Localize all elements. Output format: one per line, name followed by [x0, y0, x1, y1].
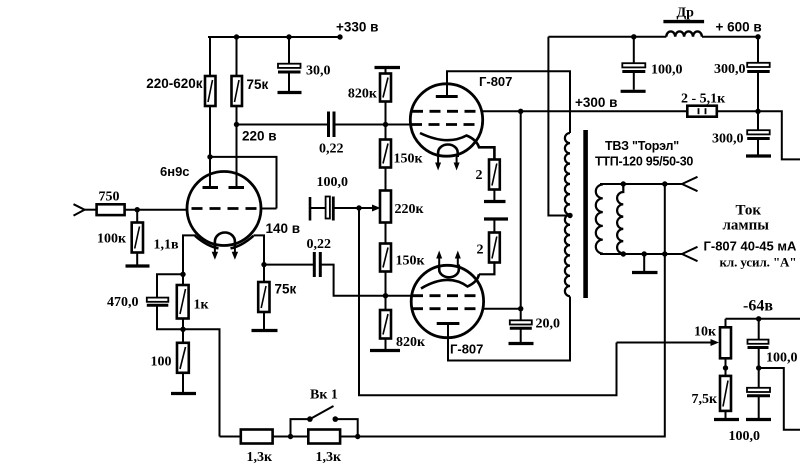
tube Г-807 lower screen grid dashed — [412, 307, 483, 310]
capacitor C 100,0 filter — [622, 63, 645, 89]
input terminal arrow — [74, 204, 85, 215]
wire 2 lower to cathode — [479, 263, 494, 275]
node input-100k junction — [135, 207, 140, 212]
resistor R 220-620к — [205, 76, 216, 106]
ground bar 30,0 — [278, 91, 302, 94]
switch Вк 1 blade — [310, 406, 334, 419]
wire screen bus — [481, 111, 521, 308]
svg-text:2: 2 — [477, 243, 484, 258]
wire switch left riser — [291, 419, 310, 436]
resistor R 150к upper — [380, 140, 391, 168]
node rail-75k junction — [234, 34, 239, 39]
wire 0,22 lower to grid2 node — [320, 265, 385, 296]
wire 300,0 lower bottom lead — [757, 140, 759, 155]
node rail-30,0 junction — [286, 34, 291, 39]
wire 1,3k left to right — [273, 436, 309, 438]
ground bar 300,0 — [746, 154, 771, 157]
wire -64в rail — [726, 318, 800, 320]
svg-text:220 в: 220 в — [242, 129, 277, 144]
svg-text:300,0: 300,0 — [714, 62, 746, 77]
svg-text:100,0: 100,0 — [729, 429, 761, 444]
svg-text:750: 750 — [99, 190, 120, 205]
resistor R 100 — [177, 343, 189, 373]
wire 150k to 820k lower — [385, 272, 387, 311]
ground bar 20,0 — [509, 342, 534, 345]
ground bar secondary — [632, 271, 658, 274]
svg-text:1к: 1к — [194, 298, 210, 313]
tube Г-807 upper control grid dashed — [411, 123, 482, 126]
tube 6н9с cathode right wing — [231, 236, 254, 249]
wire heater bus to 1,3k — [220, 436, 241, 438]
tube 6н9с anode 1 — [203, 186, 219, 189]
wire bar to 820k — [385, 68, 387, 74]
svg-text:6н9с: 6н9с — [160, 164, 190, 179]
svg-text:7,5к: 7,5к — [692, 392, 719, 407]
node output bottom junction — [662, 251, 667, 256]
node 1k-100 junction — [180, 327, 185, 332]
svg-text:140 в: 140 в — [266, 221, 301, 236]
node center tap — [567, 213, 572, 218]
wire +600 down to 300,0 — [757, 37, 759, 63]
resistor R 75к cathode — [258, 282, 269, 312]
wire 0,22 to grid node — [334, 124, 386, 126]
node screen top junction — [518, 109, 523, 114]
node +330 end terminal — [337, 34, 342, 39]
wiper arrow 10k — [617, 339, 720, 346]
resistor R 100к — [132, 223, 143, 253]
svg-text:+330 в: +330 в — [336, 20, 378, 35]
tube Г-807 upper screen grid dashed — [412, 110, 481, 113]
svg-text:100,0: 100,0 — [651, 63, 683, 78]
tube Г-807 lower cathode — [421, 274, 479, 288]
svg-text:470,0: 470,0 — [107, 295, 139, 310]
wire center tap feed — [548, 37, 570, 216]
resistor R 820к lower — [380, 310, 391, 339]
wire 10k to 7,5k — [725, 358, 727, 376]
transformer primary winding — [565, 133, 570, 296]
tube 6н9с envelope — [187, 172, 261, 246]
tube 6н9с heater arrow right — [232, 244, 238, 260]
svg-text:100,0: 100,0 — [766, 351, 798, 366]
capacitor C 300,0 upper — [747, 63, 770, 72]
wire cathode node to heater bus — [183, 329, 220, 436]
svg-text:1,1в: 1,1в — [154, 238, 180, 253]
svg-text:Г-807: Г-807 — [479, 74, 512, 89]
wire grid lead right triode — [261, 208, 277, 210]
wire choke left to center tap feed — [548, 36, 666, 38]
wire anode upper to primary top — [447, 71, 570, 133]
node switch right junction — [355, 434, 360, 439]
ground bar 2 upper — [484, 200, 506, 203]
tube Г-807 upper heater — [438, 145, 458, 158]
tube Г-807 lower anode — [437, 322, 460, 325]
node 10k-7,5k junction — [723, 365, 728, 370]
transformer core — [583, 130, 588, 298]
capacitor C 100,0 coupling — [326, 197, 334, 221]
node grid2 junction — [383, 293, 388, 298]
tube Г-807 upper cathode — [420, 133, 494, 160]
inductor Др winding — [666, 31, 702, 36]
capacitor C 20,0 — [510, 320, 532, 342]
svg-text:ТТП-120 95/50-30: ТТП-120 95/50-30 — [595, 155, 693, 169]
svg-text:0,22: 0,22 — [307, 237, 332, 252]
ground bar 100 — [171, 392, 196, 395]
tube 6н9с heater arrow left — [212, 244, 218, 260]
wire bar to 100,0 — [310, 207, 326, 209]
wire grid2 node to tube — [386, 295, 413, 297]
node +600 corner — [755, 34, 760, 39]
wire +330 rail — [208, 36, 341, 38]
ground bar 75к cathode — [252, 329, 278, 332]
wire anode lower to primary bottom — [448, 297, 570, 361]
potentiometer R 220к — [380, 191, 391, 223]
ground bar 100,0 bias — [746, 418, 771, 421]
node secondary2 top — [621, 181, 626, 186]
node anode1 junction — [207, 154, 212, 159]
svg-text:Вк 1: Вк 1 — [310, 388, 338, 403]
wire +300 node to right edge — [758, 111, 800, 159]
wire 220-620k top lead — [209, 37, 211, 76]
node 220в junction — [234, 122, 239, 127]
node wiper junction — [356, 205, 361, 210]
wire 7,5k bottom lead — [725, 411, 727, 418]
capacitor C 100,0 bias lower — [747, 388, 770, 396]
svg-text:+300 в: +300 в — [575, 95, 617, 110]
svg-text:300,0: 300,0 — [712, 132, 744, 147]
svg-text:Ток: Ток — [736, 203, 762, 219]
resistor R 75к — [232, 76, 243, 106]
wire 2-5,1k to +300 node — [717, 110, 758, 112]
node secondary2 bottom — [621, 251, 626, 256]
svg-text:ТВЗ "Торэл": ТВЗ "Торэл" — [605, 139, 679, 153]
node screen bottom junction — [518, 306, 523, 311]
wire 220-620k bottom lead to anode1 — [209, 106, 211, 187]
wire rail to 10k — [725, 319, 727, 328]
wire grid1 node to tube — [386, 124, 412, 126]
wire 1k bottom lead — [182, 319, 184, 343]
wire 100,0 filter top lead — [633, 37, 635, 64]
terminal bar 100,0 coupling — [309, 197, 312, 221]
node bias caps junction — [756, 365, 761, 370]
svg-text:20,0: 20,0 — [536, 317, 561, 332]
svg-text:2 - 5,1к: 2 - 5,1к — [681, 92, 726, 107]
tube 6н9с cathode left wing — [195, 236, 219, 249]
wire 100k bottom lead — [136, 253, 138, 265]
svg-text:150к: 150к — [396, 254, 426, 269]
svg-text:кл. усил. "А": кл. усил. "А" — [720, 255, 797, 270]
wire 750 to grid — [125, 209, 188, 211]
wire 100,0 bias lower bottom lead — [758, 397, 760, 418]
tube 6н9с grid dashed — [192, 207, 257, 210]
svg-text:Г-807 40-45 мА: Г-807 40-45 мА — [704, 239, 797, 254]
resistor R 7,5к — [720, 376, 731, 411]
node cathode2 junction — [261, 262, 266, 267]
resistor R 2 upper — [489, 160, 500, 190]
rail bar 820k chain bottom — [370, 349, 400, 352]
wire switch right riser — [335, 419, 357, 436]
wire screen to 20,0 — [520, 309, 522, 321]
svg-text:75к: 75к — [247, 77, 269, 92]
output terminal arrow bottom — [682, 247, 698, 261]
svg-text:Г-807: Г-807 — [450, 342, 483, 357]
wiper arrow 220k — [359, 205, 381, 212]
resistor R 150к lower — [380, 244, 391, 272]
resistor R 820к upper — [380, 74, 391, 102]
svg-text:0,22: 0,22 — [319, 142, 344, 157]
svg-text:100,0: 100,0 — [317, 175, 349, 190]
wire cathode2 lead — [254, 235, 265, 264]
svg-text:820к: 820к — [396, 335, 426, 350]
wire cathode node to 470,0 — [157, 274, 183, 297]
potentiometer R 10к — [720, 327, 731, 358]
wire secondary bottom rail — [600, 253, 682, 255]
wire 100k top lead — [136, 210, 138, 223]
wire -64в node to 100,0 — [758, 319, 760, 340]
wire 2 upper bottom lead — [493, 190, 495, 201]
switch Вк 1 contact left — [307, 416, 313, 422]
wire 0,22 lower from cathode2 — [264, 264, 313, 266]
resistor R 1,3к left — [241, 430, 273, 444]
node cathode1 junction — [180, 272, 185, 277]
svg-text:75к: 75к — [275, 282, 297, 297]
svg-text:100к: 100к — [97, 232, 127, 247]
wire 820k lower bottom lead — [385, 339, 387, 350]
svg-text:Др: Др — [677, 6, 695, 21]
resistor R 2 lower — [489, 233, 500, 263]
tube 6н9с heater — [215, 233, 235, 247]
wire +600 rail — [702, 36, 758, 38]
svg-text:150к: 150к — [394, 152, 424, 167]
tube Г-807 lower heater arrow right — [455, 251, 461, 268]
capacitor C 470,0 — [147, 298, 169, 306]
wire 75k#1 bottom lead to anode2 — [236, 106, 238, 187]
capacitor C 300,0 lower — [747, 130, 770, 138]
svg-text:1,3к: 1,3к — [247, 450, 274, 465]
transformer secondary winding 1 — [596, 185, 603, 254]
wire 220k to 150k lower — [385, 223, 387, 244]
wire input to 750 — [85, 209, 97, 211]
resistor R 2-5,1к — [687, 106, 717, 117]
wire 820k to 150k — [385, 102, 387, 140]
tube Г-807 lower heater arrow left — [436, 251, 442, 268]
wire secondary ground lead — [643, 254, 645, 271]
tube Г-807 lower heater — [439, 265, 459, 278]
node switch left junction — [288, 434, 293, 439]
inductor Др core bar — [663, 20, 704, 23]
node grid1 junction — [383, 122, 388, 127]
ground bar 7,5к — [714, 418, 739, 421]
svg-text:10к: 10к — [694, 325, 717, 340]
rail bar 820k chain top — [375, 66, 401, 69]
wire 75k#1 top lead — [236, 37, 238, 76]
svg-text:+ 600 в: + 600 в — [716, 20, 762, 35]
svg-text:1,3к: 1,3к — [316, 450, 343, 465]
tube Г-807 lower envelope — [411, 265, 483, 337]
wire 1k top lead — [182, 274, 184, 285]
wire wiper node down to feedback run — [359, 208, 617, 395]
wire 75k#2 bottom lead — [263, 312, 265, 329]
svg-text:2: 2 — [476, 168, 483, 183]
svg-text:30,0: 30,0 — [306, 64, 331, 79]
svg-text:100: 100 — [151, 355, 172, 370]
capacitor C 30,0 — [278, 64, 301, 91]
wire bias caps middle — [758, 348, 760, 388]
switch Вк 1 contact right — [333, 416, 339, 422]
tube Г-807 lower control grid dashed — [412, 294, 483, 297]
ground bar 2 lower top — [484, 217, 508, 220]
svg-text:820к: 820к — [348, 87, 378, 102]
svg-text:лампы: лампы — [723, 218, 770, 234]
node +300 mid junction — [755, 109, 760, 114]
resistor R 750 — [97, 204, 125, 215]
wire 100 bottom lead — [182, 373, 184, 392]
wire 470,0 bottom lead — [157, 307, 183, 330]
node filter cap junction — [631, 34, 636, 39]
wire +300 line — [521, 110, 688, 112]
svg-text:220-620к: 220-620к — [146, 76, 203, 91]
node output top junction — [662, 181, 667, 186]
svg-text:-64в: -64в — [743, 298, 773, 315]
resistor R 1к — [177, 285, 189, 319]
tube Г-807 upper envelope — [410, 84, 482, 156]
tube Г-807 upper anode — [436, 95, 458, 98]
node secondary ground junction — [642, 251, 647, 256]
wire bias node to bottom right edge — [759, 368, 800, 430]
tube Г-807 upper heater arrow left — [435, 155, 441, 171]
wire 220в to 0,22 — [237, 124, 328, 126]
ground bar 100к — [126, 264, 150, 267]
tube 6н9с anode 2 — [229, 186, 245, 189]
wire direct coupling anode1 to grid2 — [210, 157, 277, 209]
tube Г-807 upper heater arrow right — [454, 155, 460, 171]
capacitor C 30,0 top lead — [288, 37, 290, 64]
wire output bus down to heater rail — [340, 184, 665, 437]
svg-text:220к: 220к — [395, 202, 425, 217]
wire 100,0 to wiper node — [333, 207, 359, 209]
capacitor C 0,22 upper — [329, 112, 335, 138]
wire 75k#2 top lead — [263, 265, 265, 282]
capacitor C 0,22 lower — [314, 252, 320, 277]
transformer secondary winding 2 — [617, 184, 623, 254]
capacitor C 100,0 bias upper — [748, 340, 769, 348]
wire 300,0 stack middle — [757, 73, 759, 130]
wire 2 lower top lead — [493, 219, 495, 233]
wire cathode1 lead — [183, 235, 196, 274]
output terminal arrow top — [682, 177, 698, 191]
wire secondary top rail — [600, 183, 682, 185]
resistor R 1,3к right — [308, 430, 340, 444]
ground bar 100,0 filter — [621, 90, 646, 93]
wire 150k to 220k — [385, 168, 387, 191]
node -64в junction — [756, 316, 761, 321]
